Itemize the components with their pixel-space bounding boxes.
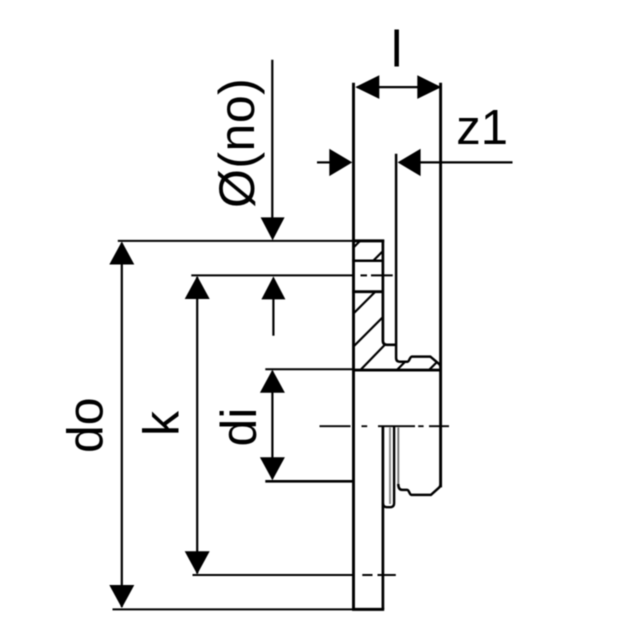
svg-text:Ø(no): Ø(no) xyxy=(209,78,265,208)
svg-text:k: k xyxy=(134,410,190,436)
bore line (inner wall, upper section) xyxy=(352,369,442,372)
svg-text:l: l xyxy=(391,21,402,78)
dimension z1 right arrow xyxy=(398,149,421,176)
dimension do top arrow xyxy=(109,242,134,265)
wire: flange left face / sealing face (also l + z1 extension line) xyxy=(352,83,355,611)
flange bottom edge xyxy=(352,608,384,611)
dimension di line xyxy=(271,371,273,479)
di bottom extension line xyxy=(265,480,352,483)
svg-text:z1: z1 xyxy=(456,101,508,155)
dimension do line xyxy=(121,243,123,607)
dimension O(no) leader line bottom xyxy=(272,299,274,336)
dimension do bottom arrow xyxy=(109,585,134,608)
dimension z1 left arrow xyxy=(329,149,352,176)
dimension O(no) down arrow xyxy=(261,217,285,240)
wire: socket end face (also l extension line) xyxy=(439,83,442,488)
dimension k bottom arrow xyxy=(185,551,210,574)
dimension k top arrow xyxy=(185,276,210,299)
flange top edge xyxy=(352,239,384,242)
lower socket stop faint edge xyxy=(397,428,399,487)
dimension di bottom arrow xyxy=(260,457,285,480)
dimension O(no) up arrow xyxy=(261,276,285,299)
dimension l right arrow xyxy=(417,75,441,99)
pipe stop line (z1 extension) + socket inner ledge + bead plateau + end slope xyxy=(396,154,441,367)
lower socket profile: ledge, bead bottom, end slope xyxy=(398,484,440,495)
dimension O(no) leader line top xyxy=(271,60,273,218)
flange disk right face upper with weld groove bottom xyxy=(383,240,396,345)
bolt hole top edge xyxy=(352,260,384,263)
do top extension line xyxy=(118,240,352,242)
lower weld groove U xyxy=(383,427,394,507)
bolt hole bottom edge xyxy=(352,290,384,293)
hatch lines disk upper block xyxy=(354,241,437,370)
bolt hole axis bottom (k extension, dash-dot) xyxy=(193,574,396,576)
lower socket bead shoulder faint edge xyxy=(389,428,391,505)
dimension z1 right tail xyxy=(420,161,512,163)
do bottom extension line xyxy=(113,608,353,610)
svg-text:do: do xyxy=(58,397,114,453)
svg-text:di: di xyxy=(211,408,267,447)
centerline (pipe axis, dash-dot) xyxy=(320,425,450,427)
dimension k line xyxy=(196,277,198,574)
bolt hole axis top (k extension, dash-dot) xyxy=(191,274,392,276)
dimension di top arrow xyxy=(260,370,285,393)
flange disk right face lower xyxy=(382,427,385,610)
dimension z1 left tail xyxy=(317,161,330,163)
di top extension line xyxy=(265,368,352,370)
dimension l left arrow xyxy=(355,75,379,99)
dimension l line xyxy=(357,86,440,88)
